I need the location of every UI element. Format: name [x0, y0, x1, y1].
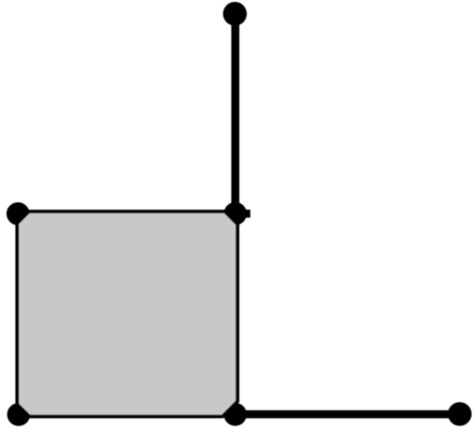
node A: square top-left dot — [7, 202, 30, 225]
gray square face with chamfered corners drawn on top — [17, 212, 237, 417]
wire: thick edge from top node down to square's top-right node — [231, 14, 239, 214]
node F: right dot — [448, 402, 472, 426]
wire: thick edge from square's bottom-right node to right node — [235, 410, 460, 418]
node C: square bottom-left dot — [7, 403, 30, 426]
wire: short stub extending right from top-right node — [235, 210, 250, 218]
node E: top dot — [223, 2, 247, 26]
node B: square top-right dot — [224, 202, 247, 225]
node D: square bottom-right dot — [224, 403, 247, 426]
